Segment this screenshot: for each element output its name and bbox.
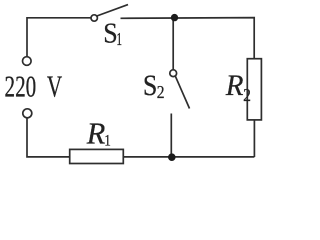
svg-text:2: 2 xyxy=(157,82,165,102)
svg-text:2: 2 xyxy=(243,85,251,105)
svg-text:220V: 220V xyxy=(5,70,63,104)
svg-text:S: S xyxy=(143,69,157,102)
svg-text:R: R xyxy=(225,70,244,102)
svg-text:1: 1 xyxy=(116,31,122,50)
svg-text:1: 1 xyxy=(104,132,111,150)
svg-text:R: R xyxy=(86,116,106,150)
